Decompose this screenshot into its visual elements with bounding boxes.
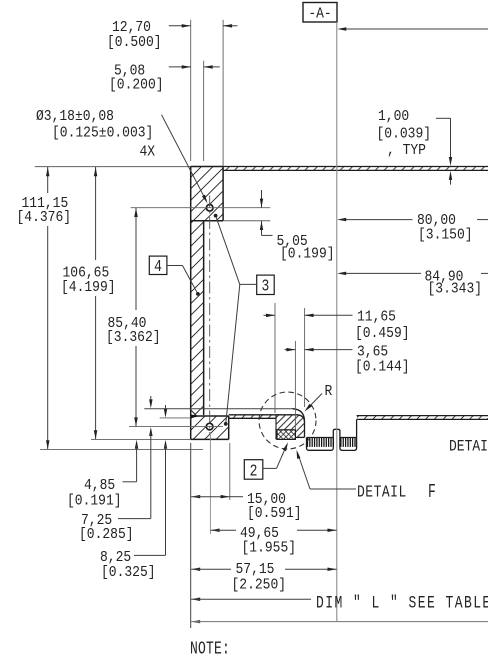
svg-text:[2.250]: [2.250] <box>232 577 287 594</box>
threaded stud cross-section <box>307 419 357 450</box>
bottom disc thin section right (hatched strip) <box>357 416 488 420</box>
svg-text:4: 4 <box>154 256 162 276</box>
label DETAIL F with leader <box>297 450 436 503</box>
extension line wall inner top <box>203 61 205 161</box>
item label 3 with two leaders <box>214 214 275 426</box>
dimension 4,85 [0.191] <box>67 440 138 510</box>
dimension 84,90 [3.343] <box>337 269 488 298</box>
svg-text:4,85: 4,85 <box>84 477 115 494</box>
svg-text:[4.199]: [4.199] <box>61 279 116 296</box>
svg-text:[3.343]: [3.343] <box>428 281 483 298</box>
datum -A- flag <box>303 3 337 23</box>
extension line flange right top <box>222 20 224 166</box>
svg-text:, TYP: , TYP <box>387 142 426 159</box>
extension line hole center (long) <box>209 432 211 534</box>
item label 2 with leader <box>244 442 288 481</box>
svg-text:[0.591]: [0.591] <box>247 505 302 522</box>
svg-text:-A-: -A- <box>308 6 331 23</box>
svg-text:F: F <box>428 481 436 503</box>
datum A center line <box>336 22 338 621</box>
extension line flange left edge (long) <box>190 443 192 628</box>
top mounting hole Ø3,18 <box>206 205 213 212</box>
dimension 49,65 [1.955] <box>211 525 337 556</box>
detail F boundary circle (dashed) <box>259 392 316 449</box>
svg-text:[0.191]: [0.191] <box>67 493 122 510</box>
hole callout Ø3,18±0,08 [0.125±0.003] 4X <box>36 108 208 203</box>
svg-text:DETAIL: DETAIL <box>357 484 407 502</box>
svg-text:[0.144]: [0.144] <box>355 359 410 376</box>
dimension 7,25 [0.285] <box>79 396 153 543</box>
extension line disc pocket top <box>160 417 191 419</box>
dimension 3,65 [0.144] <box>285 344 410 376</box>
washer section (cross-hatched) <box>277 430 295 440</box>
dimension 8,25 [0.325] <box>100 405 167 581</box>
svg-text:11,65: 11,65 <box>357 309 396 326</box>
svg-text:2: 2 <box>250 461 258 481</box>
dimension line to off-page label <box>191 620 488 624</box>
dimension 57,15 [2.250] <box>191 561 336 593</box>
label DETAIL (cut at right edge) <box>449 439 488 456</box>
extension line corner block left <box>274 303 276 413</box>
svg-text:[3.150]: [3.150] <box>418 227 473 244</box>
svg-text:[0.459]: [0.459] <box>355 325 410 342</box>
center line, top hole horizontal <box>131 207 271 209</box>
inner surface line and fillet to stud boss <box>144 409 304 438</box>
top flange cross-section (hatched) <box>191 167 223 221</box>
item label 4 with leader <box>149 256 200 296</box>
bottom flange cross-section (hatched) <box>191 416 229 439</box>
svg-text:[0.200]: [0.200] <box>109 77 164 94</box>
extension line, top flange underside <box>223 220 270 222</box>
svg-text:[0.125±0.003]: [0.125±0.003] <box>52 125 153 142</box>
disc crimped edge (solid triangle) <box>191 414 199 418</box>
extension line stud bottom level <box>40 448 203 450</box>
dimension 5,08 [0.200] <box>109 63 220 94</box>
extension line, top surface left <box>35 166 191 168</box>
bottom disc thin section left (hatched strip) <box>229 415 298 419</box>
bottom mounting hole Ø3,18 <box>206 423 213 430</box>
dimension 106,65 [4.199] <box>61 167 116 439</box>
radius label R with leader <box>305 383 333 411</box>
svg-text:[0.325]: [0.325] <box>101 564 156 581</box>
dimension 5,05 [0.199] <box>260 190 335 263</box>
dimension 11,65 [0.459] <box>264 309 410 342</box>
svg-text:R: R <box>325 383 333 400</box>
svg-text:3: 3 <box>261 276 269 296</box>
svg-text:[0.500]: [0.500] <box>107 34 162 51</box>
dimension line from right margin to datum A <box>337 27 488 31</box>
extension line washer edge <box>294 341 296 429</box>
dimension 111,15 [4.376] <box>17 167 72 449</box>
bottom hole center line horizontal <box>129 426 223 428</box>
dimension 85,40 [3.362] <box>106 208 161 427</box>
extension line stud boss edge <box>304 308 306 407</box>
NOTE: heading <box>190 638 230 656</box>
svg-text:NOTE:: NOTE: <box>190 638 230 656</box>
extension line flange bottom left <box>91 438 191 440</box>
extension line left edge top <box>190 20 192 161</box>
svg-text:DETAIL: DETAIL <box>449 439 488 456</box>
dimension 15,00 [0.591] <box>191 491 301 522</box>
svg-text:1,00: 1,00 <box>378 108 409 125</box>
center line, hole vertical (dash-dot) <box>209 196 211 434</box>
svg-text:[1.955]: [1.955] <box>242 540 297 557</box>
extension line flange right edge <box>229 443 231 500</box>
vertical wall cross-section (hatched) <box>191 167 204 417</box>
dimension 1,00 [0.039] TYP (disc thickness) <box>377 108 453 184</box>
svg-text:DIM " L " SEE TABLE: DIM " L " SEE TABLE <box>316 593 488 614</box>
svg-text:57,15: 57,15 <box>236 561 275 578</box>
svg-text:4X: 4X <box>140 144 156 161</box>
top disc thin section (hatched strip) <box>223 167 488 171</box>
dimension 80,00 [3.150] <box>337 212 488 243</box>
svg-text:[0.039]: [0.039] <box>377 126 432 143</box>
svg-text:[0.199]: [0.199] <box>280 246 335 263</box>
dimension DIM L SEE TABLE <box>191 593 488 614</box>
svg-text:[4.376]: [4.376] <box>17 209 72 226</box>
chamfer line at wall-flange joint <box>191 410 198 417</box>
svg-text:[0.285]: [0.285] <box>79 526 134 543</box>
svg-text:Ø3,18±0,08: Ø3,18±0,08 <box>36 108 114 125</box>
corner section block (hatched) <box>276 415 304 440</box>
dimension 12,70 [0.500] <box>107 19 238 51</box>
svg-text:[3.362]: [3.362] <box>106 329 161 346</box>
